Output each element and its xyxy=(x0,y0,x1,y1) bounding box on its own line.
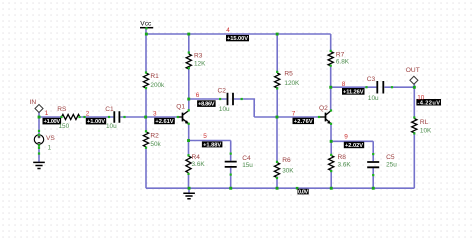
probe box node 6 xyxy=(197,100,216,107)
probe box node 8 xyxy=(342,88,365,96)
svg-text:C5: C5 xyxy=(386,154,395,161)
probe box ground 0.0V xyxy=(298,189,309,196)
wire node 5 horizontal xyxy=(189,140,231,142)
wire node 8 horizontal to C3 and OUT xyxy=(331,86,415,88)
svg-text:4: 4 xyxy=(226,27,230,34)
svg-text:+1.88V: +1.88V xyxy=(203,143,221,149)
resistor R4 xyxy=(186,156,191,173)
probe box node 7 xyxy=(293,118,315,125)
svg-text:10: 10 xyxy=(417,94,425,101)
wire Q2 emitter to node 9 xyxy=(330,124,332,142)
wire VS branch xyxy=(38,117,40,162)
probe box node 4 xyxy=(226,35,249,42)
svg-text:12K: 12K xyxy=(194,61,206,68)
svg-text:2: 2 xyxy=(86,111,90,118)
capacitor C4 (horizontal plates) xyxy=(225,162,237,167)
wire Q1 emitter to node 5 xyxy=(188,124,190,141)
transistor Q1 xyxy=(178,111,189,125)
svg-text:R8: R8 xyxy=(338,154,347,161)
svg-text:120K: 120K xyxy=(284,80,300,87)
probe box node 3 xyxy=(154,118,175,125)
resistor R6 xyxy=(274,163,279,178)
svg-text:IN: IN xyxy=(30,99,37,106)
resistor R2 xyxy=(143,132,148,147)
green pin dots xyxy=(38,27,416,179)
svg-text:25u: 25u xyxy=(386,161,397,168)
wire node6 C2 branch to node7 Q2 base xyxy=(189,99,319,117)
ground under R4 xyxy=(183,188,195,199)
ground under VS xyxy=(33,162,45,168)
svg-text:R4: R4 xyxy=(192,154,201,161)
wire R7 / Q2 collector column xyxy=(330,34,332,111)
svg-text:C2: C2 xyxy=(218,87,227,94)
svg-text:7: 7 xyxy=(292,111,296,118)
probe box node 1 xyxy=(43,118,62,125)
svg-text:R2: R2 xyxy=(150,132,159,139)
green junction dots xyxy=(38,33,416,190)
capacitor C2 xyxy=(228,93,234,106)
resistor RL xyxy=(412,119,417,133)
wire OUT column RL xyxy=(413,84,415,188)
capacitor C1 xyxy=(114,111,119,123)
transistor Q2 xyxy=(319,111,331,125)
svg-text:15u: 15u xyxy=(242,162,253,169)
svg-text:+11.26V: +11.26V xyxy=(343,90,364,96)
wire left column R1/R2 branch xyxy=(145,34,147,188)
svg-text:RS: RS xyxy=(57,106,67,113)
capacitor C5 (horizontal plates) xyxy=(367,162,379,167)
svg-text:Q1: Q1 xyxy=(176,103,185,110)
svg-text:Vcc: Vcc xyxy=(140,20,152,27)
svg-text:R6: R6 xyxy=(282,157,291,164)
svg-text:5: 5 xyxy=(203,133,207,140)
probe box node 2 xyxy=(86,118,106,125)
svg-text:6: 6 xyxy=(196,92,200,99)
svg-text:200k: 200k xyxy=(150,82,165,89)
svg-text:8: 8 xyxy=(342,81,346,88)
svg-text:+15.00V: +15.00V xyxy=(227,36,248,42)
node IN diamond xyxy=(35,105,43,113)
capacitor C3 xyxy=(377,81,383,94)
wire R5 column xyxy=(276,34,278,117)
resistor R1 xyxy=(143,73,148,88)
svg-text:50k: 50k xyxy=(150,141,161,148)
svg-text:10u: 10u xyxy=(368,95,379,102)
svg-text:0.0V: 0.0V xyxy=(298,189,308,195)
svg-text:3.6K: 3.6K xyxy=(192,161,206,168)
svg-text:+8.86V: +8.86V xyxy=(198,102,215,108)
wire node 9 horizontal + C5 leads xyxy=(331,141,373,188)
svg-text:+2.02V: +2.02V xyxy=(345,143,363,149)
wire C4 leads xyxy=(230,141,232,189)
svg-text:OUT: OUT xyxy=(406,67,420,74)
wire top rail Vcc xyxy=(146,28,331,34)
svg-text:+2.61V: +2.61V xyxy=(155,119,173,125)
Vcc power symbol xyxy=(140,20,153,27)
svg-text:10u: 10u xyxy=(106,123,117,130)
svg-text:VS: VS xyxy=(46,135,55,142)
svg-text:+1.00V: +1.00V xyxy=(87,119,105,125)
wire R8 leads xyxy=(330,141,332,188)
svg-text:+2.76V: +2.76V xyxy=(294,119,313,125)
svg-text:3.6K: 3.6K xyxy=(338,161,352,168)
svg-text:150: 150 xyxy=(59,123,70,130)
svg-text:10K: 10K xyxy=(420,128,432,135)
svg-text:10u: 10u xyxy=(219,106,230,113)
svg-text:Q2: Q2 xyxy=(319,105,328,112)
svg-text:R1: R1 xyxy=(150,73,159,80)
svg-text:C1: C1 xyxy=(105,106,114,113)
svg-text:3: 3 xyxy=(153,111,157,118)
voltage source VS xyxy=(34,135,43,144)
wire bottom ground rail xyxy=(146,187,414,189)
svg-text:C3: C3 xyxy=(367,76,376,83)
svg-text:C4: C4 xyxy=(242,155,251,162)
svg-text:1: 1 xyxy=(48,145,52,152)
resistor RS (horizontal) xyxy=(62,114,80,119)
probe box node 10 xyxy=(416,99,441,106)
wire R4 leads xyxy=(188,141,190,189)
svg-text:6.8K: 6.8K xyxy=(336,59,350,66)
resistor R7 xyxy=(328,52,333,66)
node OUT diamond xyxy=(410,76,418,84)
svg-text:RL: RL xyxy=(420,119,429,126)
svg-text:R5: R5 xyxy=(284,71,293,78)
wire R3 / Q1 collector column xyxy=(188,34,190,110)
svg-text:30K: 30K xyxy=(282,167,294,174)
svg-text:9: 9 xyxy=(344,134,348,141)
resistor R5 xyxy=(275,73,280,88)
svg-text:1: 1 xyxy=(45,110,49,117)
svg-text:R3: R3 xyxy=(194,53,203,60)
probe box node 9 xyxy=(344,142,364,149)
resistor R8 xyxy=(329,156,334,171)
wire R6 column xyxy=(276,117,278,188)
svg-text:R7: R7 xyxy=(336,52,345,59)
wire main input line IN-RS-C1-node3-Q1 xyxy=(39,113,178,118)
resistor R3 xyxy=(186,54,191,69)
probe box node 5 xyxy=(202,141,223,148)
